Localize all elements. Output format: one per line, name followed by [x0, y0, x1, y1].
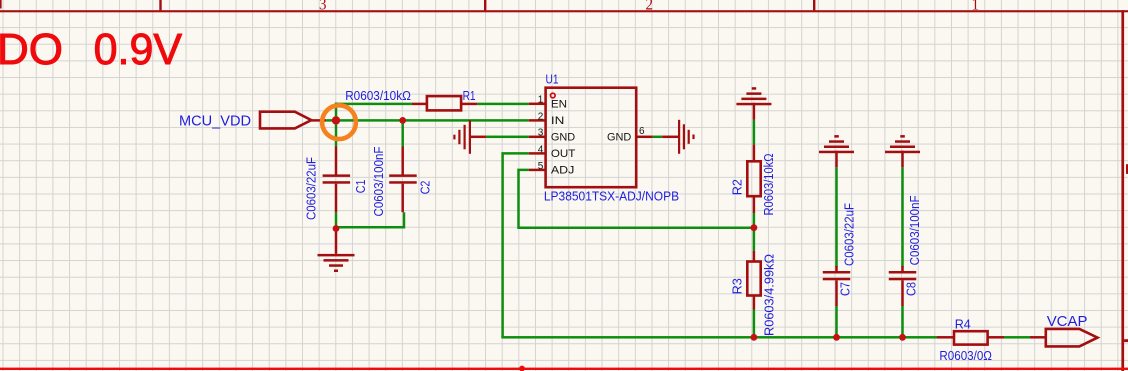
wire VCAP port lead red: [1030, 336, 1046, 339]
svg-text:GND: GND: [551, 131, 575, 143]
ground right of pin6: [662, 120, 694, 154]
svg-text:U1: U1: [546, 73, 559, 87]
U1 pin 3 GND: [529, 128, 575, 144]
wire C8 ground to top plate: [901, 167, 904, 267]
frame column number 1: [972, 0, 980, 14]
wire bottom rail: [501, 336, 937, 339]
U1 pin 4 OUT: [529, 144, 576, 160]
wire ADJ pin5 left down and right to R2/R3: [519, 170, 754, 228]
frame corner digit fragment top-left: [0, 0, 2, 9]
wire OUT pin4 left and down: [503, 153, 529, 337]
svg-text:R0603/0Ω: R0603/0Ω: [939, 349, 992, 363]
junction C7 rail: [833, 334, 840, 341]
capacitor C7: [823, 203, 857, 306]
junction C1 ground node: [333, 225, 340, 232]
resistor R4: [937, 317, 1004, 363]
svg-text:C7: C7: [838, 282, 852, 296]
frame tick middle: [484, 0, 486, 10]
svg-text:C2: C2: [419, 181, 433, 195]
svg-text:2: 2: [538, 111, 544, 122]
resistor R1: [345, 89, 477, 110]
junction MCU_VDD at C2: [399, 117, 406, 124]
svg-text:2: 2: [646, 0, 654, 14]
svg-text:OUT: OUT: [551, 148, 576, 160]
svg-text:R0603/10kΩ: R0603/10kΩ: [762, 154, 776, 216]
svg-text:1: 1: [538, 95, 544, 106]
capacitor C1: [305, 147, 368, 221]
wire R3 bottom to rail: [753, 310, 756, 338]
wire junction1 down to C1: [335, 120, 338, 146]
svg-text:C1: C1: [354, 179, 368, 193]
ground above R2: [736, 87, 771, 120]
svg-text:C0603/100nF: C0603/100nF: [908, 195, 922, 265]
frame column number 2: [646, 0, 654, 14]
U1 pin 5 ADJ: [529, 161, 575, 177]
resistor R3: [731, 251, 777, 336]
frame row letter fragment right: [1126, 164, 1128, 174]
capacitor C2: [372, 146, 433, 216]
wire pin3 to left ground: [486, 136, 529, 139]
port VCAP: [1046, 313, 1098, 347]
wire C8 bottom to rail: [901, 306, 904, 337]
svg-text:3: 3: [538, 128, 544, 139]
ground below C1: [318, 229, 355, 273]
svg-text:3: 3: [319, 0, 327, 14]
wire junction1 up to R1 row: [335, 103, 338, 122]
highlighted net line bottom: [0, 368, 1128, 370]
U1 pin 2 IN: [529, 111, 565, 127]
svg-text:LP38501TSX-ADJ/NOPB: LP38501TSX-ADJ/NOPB: [544, 190, 679, 204]
ground left of pin3: [453, 120, 486, 154]
svg-text:GND: GND: [607, 131, 631, 143]
frame right border: [1121, 10, 1124, 371]
frame column number 3: [319, 0, 327, 14]
svg-text:DO: DO: [0, 25, 63, 74]
wire gnd junction to C2 bottom: [336, 212, 404, 227]
capacitor C8: [889, 195, 922, 306]
frame tick right: [813, 0, 815, 10]
wire R1 row horizontal: [336, 103, 412, 106]
junction dot on highlighted net: [519, 366, 525, 371]
wire R4 to VCAP port: [1004, 336, 1030, 339]
wire R1 right to pin1: [477, 103, 529, 106]
svg-text:R1: R1: [463, 89, 476, 103]
ground above C7: [819, 135, 854, 167]
svg-text:R4: R4: [955, 317, 971, 331]
resistor R2: [731, 145, 777, 216]
frame tick left: [159, 0, 161, 10]
svg-text:R2: R2: [731, 179, 745, 195]
svg-text:0.9V: 0.9V: [94, 25, 183, 74]
ground above C8: [885, 135, 920, 167]
svg-text:ADJ: ADJ: [551, 164, 575, 176]
svg-text:5: 5: [538, 161, 544, 172]
wire C7 ground to top plate: [835, 167, 838, 267]
svg-text:R0603/4.99kΩ: R0603/4.99kΩ: [763, 254, 777, 336]
wire pin6 to right ground: [653, 136, 663, 139]
junction R2 R3 ADJ node: [751, 224, 758, 231]
svg-text:C0603/22uF: C0603/22uF: [305, 157, 319, 220]
svg-text:EN: EN: [551, 98, 567, 110]
svg-text:C0603/100nF: C0603/100nF: [372, 146, 386, 216]
title LDO 0.9V: [0, 25, 183, 74]
junction C8 rail: [899, 334, 906, 341]
op-amp U1 LP38501: [544, 73, 679, 204]
junction MCU_VDD at C1: [332, 116, 340, 124]
svg-text:IN: IN: [551, 115, 565, 127]
U1 pin 6 GND right: [607, 126, 653, 143]
frame top border: [0, 10, 1128, 12]
wire MCU_VDD net horizontal: [326, 119, 529, 122]
wire C1 bottom to gnd junction: [335, 212, 338, 228]
svg-text:6: 6: [639, 126, 645, 137]
svg-text:VCAP: VCAP: [1047, 313, 1088, 330]
wire port lead red: [311, 119, 326, 122]
junction R3 bottom rail: [751, 334, 758, 341]
svg-text:C8: C8: [905, 282, 919, 296]
orange highlight circle: [322, 105, 356, 139]
frame row tick right: [1124, 339, 1128, 342]
wire junction2 down to C2: [401, 120, 404, 146]
svg-text:R3: R3: [731, 278, 745, 294]
wire junction to R3 top: [753, 228, 756, 251]
svg-text:4: 4: [538, 144, 544, 155]
wire top ground to R2: [753, 120, 756, 145]
wire C7 bottom to rail: [835, 306, 838, 337]
wire R2 bottom to junction: [753, 213, 756, 228]
svg-text:MCU_VDD: MCU_VDD: [179, 113, 251, 130]
svg-text:C0603/22uF: C0603/22uF: [842, 203, 856, 266]
port MCU_VDD: [179, 112, 311, 130]
svg-text:R0603/10kΩ: R0603/10kΩ: [345, 89, 411, 103]
U1 pin 1 EN: [529, 95, 567, 111]
svg-text:1: 1: [972, 0, 980, 14]
